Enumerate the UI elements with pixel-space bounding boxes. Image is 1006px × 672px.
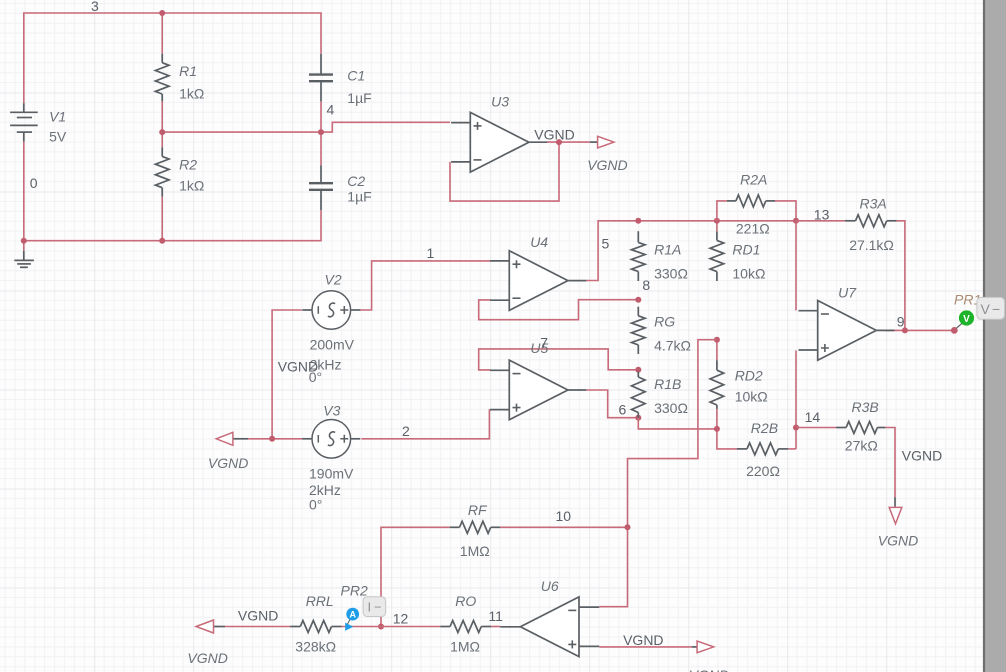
svg-text:0: 0 [30, 175, 38, 191]
junction net 6 at R1B bottom [635, 415, 641, 421]
wire net 11: RO right to U6 output [491, 626, 500, 628]
junction net 6 at RD2 bottom [714, 426, 720, 432]
AC source V2 [302, 291, 360, 330]
wire net VGND: U6 non-inverting input to ground arrow [599, 646, 692, 648]
wire net 12: RRL right to RO left [342, 626, 441, 628]
svg-text:−: − [992, 301, 1000, 317]
ground VGND arrow right of U6 [692, 646, 697, 648]
svg-text:27.1kΩ: 27.1kΩ [849, 237, 894, 253]
svg-text:VGND: VGND [208, 455, 248, 471]
resistor R2B [737, 443, 788, 455]
wire net 14: to R3B left lead [796, 427, 836, 429]
op-amp U5 [490, 360, 586, 420]
svg-text:R3B: R3B [852, 399, 879, 415]
svg-text:221Ω: 221Ω [736, 221, 770, 237]
probe PR1 leader line [957, 323, 963, 328]
wire net 3: V1 plus terminal up, along top, down to C1 [24, 13, 321, 103]
wire: R2A left lead corner [717, 201, 727, 221]
junction net 9 at U7 output [902, 327, 908, 333]
svg-text:RD2: RD2 [735, 367, 763, 383]
svg-text:11: 11 [488, 608, 503, 624]
svg-text:200mV: 200mV [310, 336, 355, 352]
svg-text:R2B: R2B [751, 420, 778, 436]
svg-text:0°: 0° [309, 497, 322, 513]
svg-text:−: − [374, 600, 382, 615]
junction net VGND at V3 [269, 436, 275, 442]
svg-text:RG: RG [654, 314, 675, 330]
svg-text:V1: V1 [49, 108, 66, 124]
svg-text:R2A: R2A [740, 172, 767, 188]
resistor R1A [632, 231, 646, 281]
resistor RO [440, 621, 491, 633]
junction net 10 at RD1/RD2 [714, 337, 720, 343]
junction at U3 output [556, 139, 562, 145]
ground VGND arrow bottom left [214, 626, 226, 628]
capacitor C2 [309, 165, 333, 210]
battery V1 [10, 103, 38, 141]
wire net 5: U4 output up to R1A top [586, 221, 638, 281]
svg-text:5V: 5V [49, 128, 67, 144]
probe PR2 current probe [346, 620, 350, 628]
svg-text:1µF: 1µF [347, 189, 371, 205]
capacitor C1 [309, 54, 333, 102]
svg-text:8: 8 [642, 277, 650, 293]
wire net 14: U7 non-inverting input down to R2B right [795, 351, 797, 449]
svg-text:VGND: VGND [902, 448, 942, 464]
op-amp U3 [451, 112, 547, 172]
ground VGND arrow left of V3 [233, 438, 248, 440]
wire net VGND: bottom left arrow to RRL [225, 626, 290, 628]
wire net 13: down to U7 inverting input [795, 221, 797, 311]
wire net 0: V1 minus down, along bottom, up to C2 [24, 141, 321, 240]
resistor R2 [155, 148, 169, 197]
junction net 12 at RF drop [378, 624, 384, 630]
svg-text:R3A: R3A [860, 196, 887, 212]
svg-text:RO: RO [455, 593, 476, 609]
svg-text:V3: V3 [323, 403, 340, 419]
svg-text:PR2: PR2 [341, 583, 368, 599]
wire: R3A right lead down to U7 output [897, 221, 905, 331]
svg-text:190mV: 190mV [309, 466, 354, 482]
svg-text:RF: RF [468, 502, 488, 518]
svg-text:2: 2 [402, 423, 410, 439]
svg-text:R1: R1 [179, 63, 197, 79]
svg-text:VGND: VGND [878, 532, 918, 548]
svg-text:1µF: 1µF [347, 90, 371, 106]
svg-text:10kΩ: 10kΩ [732, 265, 765, 281]
svg-text:VGND: VGND [278, 359, 318, 375]
wire net VGND: branch up to V2 minus [272, 310, 302, 439]
wire net 6: across to RD2 bottom [638, 418, 717, 429]
wire net 13 col: RD1 top lead stub [716, 221, 718, 232]
wire net 3: branch down to R1 top [161, 13, 163, 54]
probe PR1 voltage probe [959, 310, 974, 325]
wire: RD1 bottom to RD2 top column [716, 340, 718, 361]
svg-text:1kΩ: 1kΩ [179, 85, 204, 101]
wire net 1: V2 plus to U4 non-inverting input [359, 261, 490, 310]
svg-text:RRL: RRL [306, 593, 334, 609]
resistor RD1 [710, 231, 724, 281]
svg-text:27kΩ: 27kΩ [845, 438, 878, 454]
wire net 10: RF right lead to vertical [500, 526, 628, 528]
svg-text:14: 14 [805, 409, 821, 425]
wire: R2A right lead corner to node 13 [775, 201, 796, 221]
svg-text:10kΩ: 10kΩ [735, 389, 768, 405]
svg-text:1MΩ: 1MΩ [450, 638, 480, 654]
junction net 0 at ground stub [21, 238, 27, 244]
junction at RD1 top / R2A left [714, 218, 720, 224]
wire: U3 feedback from inverting input to output [450, 142, 559, 201]
probe PR1 readout box V- [977, 297, 1005, 319]
svg-text:330Ω: 330Ω [654, 265, 688, 281]
svg-text:A: A [349, 610, 356, 620]
wire net 8: U4 inverting input feedback to R1A/RG node [479, 300, 639, 320]
svg-text:12: 12 [393, 611, 409, 627]
op-amp U6 [500, 597, 599, 657]
svg-text:RD1: RD1 [732, 241, 760, 257]
resistor RF [450, 521, 500, 533]
svg-text:7: 7 [540, 335, 548, 351]
wire net VGND: left ground arrow to V3 minus [248, 438, 303, 440]
wire net 2: V3 plus to U5 non-inverting input [361, 410, 490, 439]
junction net 5 at R1A top [635, 218, 641, 224]
svg-text:220Ω: 220Ω [746, 463, 780, 479]
svg-text:13: 13 [814, 207, 830, 223]
svg-text:R2: R2 [179, 157, 197, 173]
wire: R2B right lead [788, 448, 796, 450]
junction net 13 [793, 218, 799, 224]
svg-text:VGND: VGND [587, 157, 627, 173]
wire net 4: C1 bottom to C2 top [320, 101, 322, 165]
wire net 6: U5 output to R1B bottom [586, 390, 638, 418]
svg-text:6: 6 [619, 402, 627, 418]
resistor R2A [727, 195, 775, 207]
svg-text:10: 10 [556, 508, 572, 524]
op-amp U4 [490, 251, 586, 311]
svg-text:1kΩ: 1kΩ [179, 178, 204, 194]
svg-text:U7: U7 [838, 285, 857, 301]
resistor R3B [836, 422, 885, 434]
resistor RRL [290, 621, 341, 633]
wire net 5/13 top rail: R1A top to RD1 top to node 13 [638, 220, 796, 222]
svg-text:VGND: VGND [623, 632, 663, 648]
svg-text:4.7kΩ: 4.7kΩ [654, 338, 691, 354]
svg-text:VGND: VGND [534, 126, 574, 142]
wire net 13: to R3A left [796, 220, 845, 222]
junction net 10 at RF right [625, 524, 631, 530]
wire net 0: stub to earth ground [23, 241, 25, 251]
svg-text:U6: U6 [541, 578, 559, 594]
resistor RG [632, 307, 646, 354]
right gray sidebar panel [984, 0, 1006, 672]
svg-text:1: 1 [427, 245, 435, 261]
svg-text:C1: C1 [347, 68, 365, 84]
wire net 0: branch R2 bottom [161, 197, 163, 241]
probe PR2 readout box I- [363, 597, 386, 617]
wire net 4: to U3 non-inverting input [321, 122, 450, 132]
svg-text:3: 3 [91, 0, 99, 14]
wire net 4: across to capacitor column [162, 131, 321, 133]
wire net 4: R1 bottom to R2 top [161, 101, 163, 147]
svg-text:328kΩ: 328kΩ [295, 638, 336, 654]
svg-text:5: 5 [602, 236, 610, 252]
earth ground below V1 [14, 251, 34, 267]
svg-text:VGND: VGND [689, 667, 729, 672]
wire net 10: RD1/RD2 node to U6 inverting input [599, 340, 717, 607]
junction net 0 at R2 bottom [159, 238, 165, 244]
svg-text:VGND: VGND [187, 650, 227, 666]
junction net 8 at R1A bottom / RG top [635, 297, 641, 303]
resistor RD2 [710, 360, 724, 409]
ground VGND arrow below R3B [894, 497, 896, 506]
wire net 10: RF left lead down to bottom rail [381, 527, 450, 626]
junction net 7 at RG bottom / R1B top [635, 367, 641, 373]
svg-text:I: I [368, 600, 372, 615]
svg-text:330Ω: 330Ω [654, 400, 688, 416]
wire net 9: U7 output to probe PR1 [884, 329, 951, 331]
probe PR1 wire end dot [951, 327, 958, 334]
svg-text:R1A: R1A [654, 241, 681, 257]
wire net VGND: U3 output to ground arrow [547, 141, 590, 143]
wire: RD2 bottom to R2B left corner [717, 409, 737, 449]
resistor R3A [845, 215, 897, 227]
svg-text:U4: U4 [530, 234, 548, 250]
svg-text:U3: U3 [491, 94, 509, 110]
svg-text:V2: V2 [325, 272, 342, 288]
resistor R1 [155, 54, 169, 102]
op-amp U7 [799, 301, 895, 361]
svg-text:VGND: VGND [238, 608, 278, 624]
resistor R1B [632, 372, 646, 418]
junction net 3 at R1 top [159, 10, 165, 16]
svg-text:9: 9 [897, 314, 905, 330]
svg-text:V: V [963, 314, 970, 325]
svg-text:C2: C2 [347, 173, 365, 189]
junction net 4 at capacitor column [318, 129, 324, 135]
wire: R3B right lead down to VGND arrow [885, 428, 895, 498]
AC source V3 [302, 420, 360, 459]
junction net 14 at R3B left [793, 425, 799, 431]
svg-text:1MΩ: 1MΩ [460, 543, 490, 559]
svg-text:R1B: R1B [654, 376, 681, 392]
ground VGND arrow right of U3 [590, 141, 598, 143]
svg-text:V: V [981, 301, 991, 317]
wire net 7: U5 inverting input to RG/R1B node [479, 349, 639, 370]
junction net 4 at resistor column [159, 129, 165, 135]
svg-text:4: 4 [327, 102, 335, 118]
